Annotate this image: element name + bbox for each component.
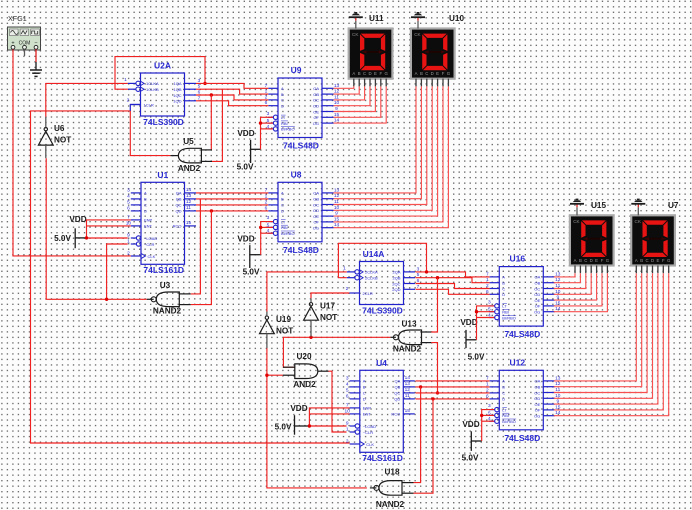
decoder U12 74LS48D: [486, 357, 561, 443]
svg-text:OA: OA: [535, 275, 541, 280]
wire U14A 2QA to U16 A: [416, 272, 490, 277]
svg-text:D: D: [281, 209, 284, 214]
svg-text:74LS390D: 74LS390D: [362, 306, 403, 316]
svg-text:QD: QD: [176, 209, 182, 214]
inverter U19 NOT: [260, 312, 294, 349]
wire U12 OE to U7 E: [554, 273, 658, 404]
svg-text:12: 12: [186, 199, 192, 205]
svg-text:NOT: NOT: [320, 313, 337, 322]
svg-text:OG: OG: [313, 121, 319, 126]
svg-text:OA: OA: [535, 379, 541, 384]
svg-text:OD: OD: [534, 292, 540, 297]
svg-text:B: B: [363, 385, 366, 390]
wire U16 OC to U15 C: [554, 273, 586, 288]
wire VDD to U12 LT RBI BI: [480, 410, 494, 441]
svg-text:1CLR: 1CLR: [144, 102, 154, 107]
svg-text:E: E: [595, 258, 598, 263]
svg-text:OE: OE: [535, 298, 541, 303]
wire COM stub: [24, 49, 26, 56]
svg-text:OG: OG: [534, 310, 540, 315]
svg-text:E: E: [436, 71, 439, 76]
wire U17 out to U14A 2CLR: [311, 293, 349, 298]
svg-text:BI/RBO: BI/RBO: [502, 315, 516, 320]
wire U5 out to U2A 1CLR and U4 CLK: [31, 105, 350, 444]
svg-text:U4: U4: [376, 358, 387, 368]
svg-text:C: C: [646, 258, 649, 263]
svg-text:U15: U15: [591, 201, 606, 210]
svg-text:OC: OC: [313, 202, 319, 207]
svg-text:NOT: NOT: [54, 136, 71, 145]
wire U9 OF to U11 F: [334, 86, 381, 117]
svg-text:VDD: VDD: [237, 235, 254, 244]
display U11 pins: [354, 79, 386, 87]
svg-text:C: C: [144, 203, 147, 208]
svg-text:U16: U16: [510, 254, 526, 264]
svg-text:~CLR: ~CLR: [144, 242, 154, 247]
svg-text:A: A: [281, 86, 284, 91]
svg-text:RBI: RBI: [281, 121, 288, 126]
svg-text:74LS161D: 74LS161D: [143, 265, 184, 275]
svg-text:ENP: ENP: [363, 406, 372, 411]
svg-text:~CLR: ~CLR: [363, 430, 373, 435]
inverter U17 NOT: [304, 298, 338, 336]
svg-text:5.0V: 5.0V: [468, 353, 485, 362]
wire U9 OB to U11 B: [334, 86, 360, 94]
svg-text:6: 6: [127, 205, 130, 211]
svg-text:CLK: CLK: [366, 442, 374, 447]
svg-text:C: C: [281, 203, 284, 208]
svg-text:VDD: VDD: [462, 420, 479, 429]
wire U14A 2QB to U13 input A: [431, 276, 439, 332]
wire U19 out to U14A 2CLKA: [267, 272, 347, 312]
svg-text:QC: QC: [176, 203, 182, 208]
svg-text:XFG1: XFG1: [8, 14, 27, 23]
svg-text:RCO: RCO: [391, 412, 400, 417]
svg-text:U20: U20: [296, 352, 311, 361]
svg-text:U13: U13: [401, 320, 416, 329]
wire VDD to U9 LT RBI BI: [259, 117, 273, 149]
svg-text:VDD: VDD: [460, 318, 477, 327]
svg-text:2: 2: [346, 439, 349, 445]
AND gate U20 AND2: [283, 352, 329, 389]
svg-text:3: 3: [267, 215, 270, 221]
svg-text:OB: OB: [313, 92, 319, 97]
wire U14A 2QD to U16 D: [416, 289, 490, 294]
wire U9 OE to U11 E: [334, 86, 376, 111]
svg-text:U1: U1: [157, 170, 168, 180]
wire U2A 1QB to U5 input B: [212, 89, 222, 161]
svg-text:3: 3: [127, 187, 130, 193]
svg-text:74LS48D: 74LS48D: [504, 433, 540, 443]
svg-text:U9: U9: [291, 65, 302, 75]
svg-text:2: 2: [127, 251, 130, 257]
svg-text:74LS48D: 74LS48D: [504, 329, 540, 339]
svg-text:D: D: [363, 397, 366, 402]
svg-text:2CLKA: 2CLKA: [365, 270, 378, 275]
wire U1 QD to U8 D: [196, 210, 268, 212]
NAND gate U18 NAND2: [370, 468, 414, 510]
svg-text:74LS161D: 74LS161D: [362, 453, 403, 463]
svg-text:C: C: [281, 98, 284, 103]
wire U1 QA to U8 A: [196, 192, 268, 194]
svg-text:5.0V: 5.0V: [462, 454, 479, 463]
svg-text:1QA: 1QA: [173, 81, 181, 86]
svg-text:2: 2: [127, 97, 130, 103]
svg-text:OD: OD: [313, 104, 319, 109]
wire XFG1+ to U1 CLK: [13, 49, 131, 256]
wire U4 QD to U18 input B: [414, 397, 435, 493]
svg-text:OD: OD: [534, 396, 540, 401]
wire VDD to U16 LT RBI BI: [475, 306, 494, 340]
svg-text:C: C: [425, 71, 428, 76]
wire U9 OC to U11 C: [334, 86, 365, 100]
svg-text:B: B: [420, 71, 423, 76]
svg-text:A: A: [281, 191, 284, 196]
svg-text:12: 12: [405, 387, 411, 393]
svg-text:U6: U6: [54, 124, 65, 133]
svg-text:B: B: [144, 197, 147, 202]
display U7 pins: [636, 265, 668, 273]
svg-text:CK: CK: [414, 32, 421, 37]
wire U12 OF to U7 F: [554, 273, 664, 410]
svg-text:OA: OA: [313, 191, 319, 196]
svg-text:11: 11: [186, 205, 191, 211]
display U15 pins: [575, 265, 607, 273]
svg-text:2CLKB: 2CLKB: [365, 276, 378, 281]
svg-text:OB: OB: [313, 197, 319, 202]
power VDD U12: [462, 420, 482, 463]
svg-text:QD: QD: [394, 397, 400, 402]
svg-text:~LOAD: ~LOAD: [144, 236, 157, 241]
svg-text:13: 13: [405, 381, 411, 387]
decoder U9 74LS48D: [265, 65, 340, 151]
svg-text:C: C: [584, 258, 587, 263]
svg-text:LT: LT: [281, 115, 286, 120]
svg-text:VDD: VDD: [69, 215, 86, 224]
svg-text:2: 2: [346, 286, 349, 292]
svg-text:2CLR: 2CLR: [363, 291, 373, 296]
wire U9 OD to U11 D: [334, 86, 371, 105]
svg-text:5.0V: 5.0V: [237, 163, 254, 172]
svg-text:2QC: 2QC: [392, 281, 400, 286]
svg-text:3: 3: [488, 299, 491, 305]
svg-text:B: B: [358, 71, 361, 76]
wire U12 OA to U7 A: [554, 273, 637, 381]
svg-text:CK: CK: [635, 219, 642, 224]
svg-text:OC: OC: [313, 98, 319, 103]
svg-text:RBI: RBI: [502, 310, 509, 315]
svg-text:U14A: U14A: [363, 249, 385, 259]
svg-text:LT: LT: [502, 407, 507, 412]
wire U14A 2QB to U16 B: [416, 278, 490, 283]
svg-text:CK: CK: [573, 219, 580, 224]
wire U4 QB to U18 input A: [414, 385, 423, 482]
svg-text:15: 15: [405, 408, 411, 414]
wire VDD to U8 LT RBI BI: [259, 222, 273, 255]
svg-text:RBI: RBI: [502, 413, 509, 418]
svg-text:B: B: [579, 258, 582, 263]
wire U16 OD to U15 D: [554, 273, 591, 294]
wire VDD to U4 ENP ENT LOAD: [308, 408, 350, 428]
wire U8 OE to U10 E: [334, 86, 438, 216]
power VDD U8: [237, 235, 260, 277]
svg-text:2QA: 2QA: [392, 270, 400, 275]
svg-text:U19: U19: [276, 315, 291, 324]
svg-text:OF: OF: [535, 408, 541, 413]
svg-text:QA: QA: [176, 191, 182, 196]
svg-text:CK: CK: [352, 32, 359, 37]
svg-text:ENP: ENP: [144, 218, 153, 223]
wire U18 out to U19 in and U20 input B: [265, 348, 367, 488]
svg-text:3: 3: [346, 375, 349, 381]
svg-text:5.0V: 5.0V: [243, 268, 260, 277]
svg-text:OG: OG: [534, 414, 540, 419]
svg-text:QC: QC: [394, 391, 400, 396]
svg-text:4: 4: [127, 193, 130, 199]
svg-text:QB: QB: [395, 385, 401, 390]
power VCC U15: [570, 199, 584, 216]
svg-text:1: 1: [343, 266, 346, 272]
svg-text:D: D: [144, 209, 147, 214]
svg-text:CLK: CLK: [148, 254, 156, 259]
wire U14A 2QA feedback to 2CLKB: [338, 243, 428, 277]
display U7: [630, 201, 679, 267]
svg-text:RCO: RCO: [173, 224, 182, 229]
counter U1 74LS161D: [126, 170, 196, 275]
svg-text:11: 11: [405, 393, 410, 399]
wire U16 OG to U15 G: [554, 273, 608, 312]
svg-text:NAND2: NAND2: [153, 307, 182, 316]
svg-text:B: B: [640, 258, 643, 263]
counter U4 74LS161D: [345, 358, 415, 463]
wire U4 QC to U13 input B: [431, 343, 439, 395]
svg-text:14: 14: [186, 187, 192, 193]
wire U13 out to U20 input A: [283, 336, 390, 368]
svg-text:VDD: VDD: [237, 129, 254, 138]
NAND gate U13 NAND2: [390, 320, 431, 354]
svg-text:1CLKB: 1CLKB: [146, 87, 159, 92]
svg-text:U3: U3: [160, 281, 171, 290]
svg-text:ENT: ENT: [144, 224, 153, 229]
svg-text:B: B: [281, 92, 284, 97]
svg-text:A: A: [502, 379, 505, 384]
svg-text:QB: QB: [176, 197, 182, 202]
svg-text:A: A: [144, 191, 147, 196]
wire U8 OC to U10 C: [334, 86, 427, 204]
svg-text:D: D: [281, 104, 284, 109]
svg-text:OE: OE: [535, 402, 541, 407]
svg-text:RBI: RBI: [281, 225, 288, 230]
wire U12 OD to U7 D: [554, 273, 653, 398]
power VCC U7: [631, 199, 645, 216]
wire U16 OE to U15 E: [554, 273, 597, 300]
svg-text:U8: U8: [291, 169, 302, 179]
svg-text:U10: U10: [449, 14, 464, 23]
wire U1 QB to U8 B: [196, 198, 268, 200]
svg-text:OG: OG: [313, 226, 319, 231]
wire U9 OA to U11 A: [334, 86, 354, 88]
wire U3 out to U1 CLR: [46, 158, 147, 301]
counter U2A 74LS390D: [124, 61, 201, 128]
wire U1 QC to U8 C: [196, 204, 268, 206]
svg-text:1QD: 1QD: [173, 99, 181, 104]
svg-text:B: B: [502, 385, 505, 390]
svg-text:F: F: [601, 258, 604, 263]
svg-text:4: 4: [346, 381, 349, 387]
svg-text:U11: U11: [369, 14, 384, 23]
svg-text:A: A: [363, 379, 366, 384]
svg-text:OE: OE: [313, 214, 319, 219]
wire U8 OG to U10 G: [334, 86, 449, 227]
power VDD U9: [237, 129, 261, 172]
svg-text:OD: OD: [313, 208, 319, 213]
display U10 pins: [416, 79, 448, 87]
svg-text:14: 14: [405, 375, 411, 381]
svg-text:F: F: [442, 71, 445, 76]
display U15: [569, 201, 615, 267]
svg-text:LT: LT: [281, 219, 286, 224]
svg-text:OB: OB: [535, 385, 541, 390]
svg-text:15: 15: [186, 220, 192, 226]
function generator XFG1: [8, 14, 41, 50]
wire U1 QB to U3 input A: [191, 199, 201, 294]
svg-text:U5: U5: [183, 137, 194, 146]
ground: [30, 49, 42, 76]
svg-text:QA: QA: [395, 379, 401, 384]
wire U2A 1QA feedback to 1CLKB: [115, 57, 207, 90]
svg-text:OC: OC: [534, 286, 540, 291]
wire U12 OG to U7 G: [554, 273, 669, 416]
display U11: [348, 14, 394, 80]
svg-text:~LOAD: ~LOAD: [363, 424, 376, 429]
svg-text:A: A: [574, 258, 577, 263]
svg-text:3: 3: [267, 111, 270, 117]
svg-text:BI/RBO: BI/RBO: [502, 419, 516, 424]
wire U8 OD to U10 D: [334, 86, 433, 210]
svg-text:U2A: U2A: [154, 61, 171, 71]
svg-text:74LS48D: 74LS48D: [283, 245, 319, 255]
svg-text:BI/RBO: BI/RBO: [281, 127, 295, 132]
svg-text:VDD: VDD: [290, 404, 307, 413]
svg-text:1: 1: [124, 77, 127, 83]
svg-text:D: D: [590, 258, 593, 263]
svg-text:D: D: [502, 397, 505, 402]
svg-text:13: 13: [186, 193, 192, 199]
svg-text:A: A: [502, 275, 505, 280]
svg-text:BI/RBO: BI/RBO: [281, 231, 295, 236]
svg-text:D: D: [651, 258, 654, 263]
wire U2A 1QB to U9 B: [196, 89, 268, 94]
svg-text:74LS48D: 74LS48D: [283, 141, 319, 151]
wire U1 QD to U3 input B: [191, 209, 213, 304]
svg-text:F: F: [662, 258, 665, 263]
svg-text:U18: U18: [384, 468, 399, 477]
svg-text:D: D: [368, 71, 371, 76]
wire U4 QA to U12 A: [416, 380, 490, 382]
svg-text:5.0V: 5.0V: [275, 423, 292, 432]
counter U14A 74LS390D: [343, 249, 420, 316]
svg-text:U7: U7: [668, 201, 679, 210]
svg-text:E: E: [656, 258, 659, 263]
wire U6 out to U2A 1CLKA: [46, 83, 128, 116]
svg-text:A: A: [635, 258, 638, 263]
svg-text:A: A: [352, 71, 355, 76]
wire U12 OB to U7 B: [554, 273, 642, 387]
AND gate U5 AND2: [170, 137, 212, 173]
svg-text:OB: OB: [535, 281, 541, 286]
svg-text:2QB: 2QB: [392, 276, 400, 281]
power VCC U10: [411, 12, 425, 29]
svg-text:OF: OF: [535, 304, 541, 309]
svg-text:B: B: [502, 281, 505, 286]
svg-text:1QB: 1QB: [173, 87, 181, 92]
power VCC U11: [349, 12, 363, 29]
inverter U6 NOT: [38, 117, 71, 158]
power VDD U16: [460, 318, 485, 362]
svg-text:C: C: [502, 286, 505, 291]
svg-text:OF: OF: [313, 115, 319, 120]
svg-text:B: B: [281, 197, 284, 202]
svg-text:AND2: AND2: [293, 380, 316, 389]
svg-text:U12: U12: [510, 357, 526, 367]
wire U2A 1QD to U9 D: [196, 101, 268, 106]
wire U4 QD to U12 D: [416, 398, 490, 400]
wire U4 QB to U12 B: [416, 386, 490, 388]
svg-text:1CLKA: 1CLKA: [146, 81, 159, 86]
power VDD U4: [275, 404, 310, 435]
wire U16 OB to U15 B: [554, 273, 581, 283]
svg-text:2QD: 2QD: [392, 287, 400, 292]
wire U2A 1QC to U5 input A: [210, 93, 213, 150]
wire U4 QC to U12 C: [416, 392, 490, 394]
svg-text:C: C: [363, 391, 366, 396]
svg-text:74LS390D: 74LS390D: [143, 117, 184, 127]
svg-text:NAND2: NAND2: [393, 345, 422, 354]
wire U8 OB to U10 B: [334, 86, 422, 198]
svg-text:OF: OF: [313, 220, 319, 225]
svg-text:U17: U17: [320, 302, 335, 311]
svg-text:NAND2: NAND2: [376, 500, 405, 509]
svg-text:C: C: [363, 71, 366, 76]
wire U12 OC to U7 C: [554, 273, 647, 392]
wire VDD to U1 ENP ENT LOAD: [85, 220, 131, 240]
wire U16 OA to U15 A: [554, 273, 575, 277]
wire U2A 1QA to U9 A: [196, 83, 268, 88]
svg-text:3: 3: [488, 403, 491, 409]
display U10: [410, 14, 465, 80]
power VDD U1: [54, 215, 87, 248]
wire U16 OF to U15 F: [554, 273, 602, 306]
svg-text:D: D: [431, 71, 434, 76]
svg-text:5.0V: 5.0V: [54, 234, 71, 243]
svg-text:E: E: [374, 71, 377, 76]
svg-text:A: A: [415, 71, 418, 76]
svg-text:1QC: 1QC: [173, 93, 181, 98]
svg-text:NOT: NOT: [276, 327, 293, 336]
svg-text:C: C: [502, 391, 505, 396]
svg-text:OC: OC: [534, 390, 540, 395]
svg-text:6: 6: [346, 393, 349, 399]
decoder U16 74LS48D: [486, 254, 561, 340]
svg-text:D: D: [502, 292, 505, 297]
wire U8 OA to U10 A: [334, 86, 417, 192]
wire U8 OF to U10 F: [334, 86, 444, 222]
svg-text:F: F: [379, 71, 382, 76]
svg-text:5: 5: [127, 199, 130, 205]
svg-text:5: 5: [346, 387, 349, 393]
wire U9 OG to U11 G: [334, 86, 387, 123]
svg-text:OA: OA: [313, 86, 319, 91]
